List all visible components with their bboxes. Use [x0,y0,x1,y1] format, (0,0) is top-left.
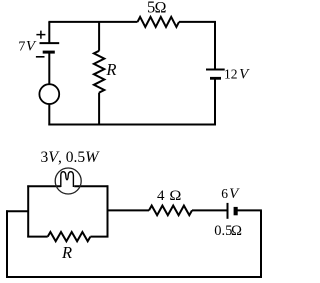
battery B1 minus sign [36,56,45,58]
wire from 4ohm to 6V battery [192,209,228,211]
lamp circle [55,168,81,194]
resistor R (top circuit) zigzag [94,51,104,93]
wire rectangle left side [27,185,29,237]
wire top horizontal right segment [179,21,216,23]
wire top-left rail (battery B1 top to top-left corner) [48,22,50,43]
svg-text:7V: 7V [18,39,37,55]
wire from rectangle to 4ohm resistor [108,209,150,211]
wire bottom horizontal of bottom circuit [6,276,262,278]
wire rectangle top side, right of lamp [74,185,108,187]
meter circle (unlabeled round element on left rail) [39,84,59,104]
wire top horizontal left segment [48,21,137,23]
svg-text:12V: 12V [224,66,250,82]
resistor 5ohm zigzag [138,17,180,27]
svg-text:6V: 6V [221,186,240,202]
svg-text:R: R [61,243,72,262]
battery 6V: short thick plate (right) [234,207,238,215]
battery 12V: long plate [206,69,225,71]
wire right rail of bottom circuit [260,210,262,278]
battery B1 7V: short thick plate [43,51,55,54]
resistor 4ohm zigzag [149,206,192,216]
svg-text:Ω: Ω [169,188,181,204]
wire bottom horizontal of top circuit [48,124,216,126]
wire rectangle bottom, right of resistor R [90,236,108,238]
resistor R (bottom circuit) zigzag [48,232,91,241]
wire outer left rail [6,210,8,278]
wire rectangle right side [107,185,109,237]
wire rectangle top side, left of lamp [27,185,60,187]
battery 12V: short thick plate [210,77,221,80]
wire left rail lower (circle to bottom wire) [48,104,50,126]
lamp filament (M shape) [61,172,74,187]
svg-text:Ω: Ω [231,223,242,239]
resistor R vertical branch: top lead wire [98,22,100,51]
wire left rail middle (battery B1 bottom plate to circle top) [48,53,50,84]
svg-text:3V, 0.5W: 3V, 0.5W [41,149,101,166]
resistor R vertical branch: bottom lead wire [98,93,100,125]
wire left connector (outer rail to rectangle) [6,210,28,212]
svg-text:4: 4 [157,188,165,204]
battery 6V: long plate (left, vertical) [227,203,229,219]
battery B1 plus sign [36,31,45,39]
wire right rail upper (to 12V battery) [214,21,216,70]
svg-text:0.5: 0.5 [214,223,232,239]
svg-text:R: R [105,60,116,79]
battery B1 7V: long plate [40,42,60,44]
wire right rail lower (12V battery to bottom wire) [214,80,216,126]
wire rectangle bottom, left of resistor R [27,236,47,238]
wire from 6V battery to right rail [237,209,262,211]
svg-text:Ω: Ω [155,0,167,17]
